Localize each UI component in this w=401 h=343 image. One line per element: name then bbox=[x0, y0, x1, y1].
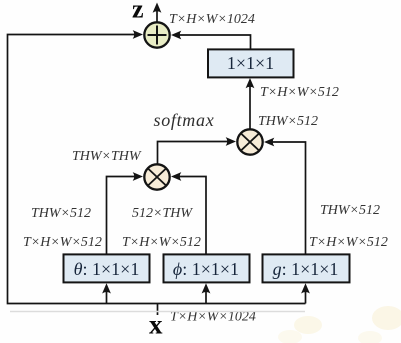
svg-text:ϕ: 1×1×1: ϕ: 1×1×1 bbox=[173, 259, 239, 279]
svg-text:T×H×W×1024: T×H×W×1024 bbox=[169, 12, 255, 27]
svg-text:THW×512: THW×512 bbox=[320, 203, 380, 218]
svg-text:softmax: softmax bbox=[154, 110, 215, 130]
svg-text:THW×512: THW×512 bbox=[258, 114, 318, 129]
svg-text:THW×512: THW×512 bbox=[31, 206, 91, 221]
svg-text:θ: 1×1×1: θ: 1×1×1 bbox=[74, 259, 140, 279]
svg-text:x: x bbox=[149, 310, 163, 340]
svg-text:g: 1×1×1: g: 1×1×1 bbox=[273, 259, 339, 279]
svg-text:z: z bbox=[132, 0, 144, 24]
svg-text:THW×THW: THW×THW bbox=[72, 149, 142, 164]
svg-text:512×THW: 512×THW bbox=[132, 206, 193, 221]
svg-text:T×H×W×512: T×H×W×512 bbox=[309, 235, 388, 250]
svg-text:T×H×W×512: T×H×W×512 bbox=[260, 85, 339, 100]
svg-text:T×H×W×512: T×H×W×512 bbox=[23, 235, 102, 250]
svg-text:T×H×W×512: T×H×W×512 bbox=[122, 235, 201, 250]
svg-text:1×1×1: 1×1×1 bbox=[227, 53, 274, 73]
